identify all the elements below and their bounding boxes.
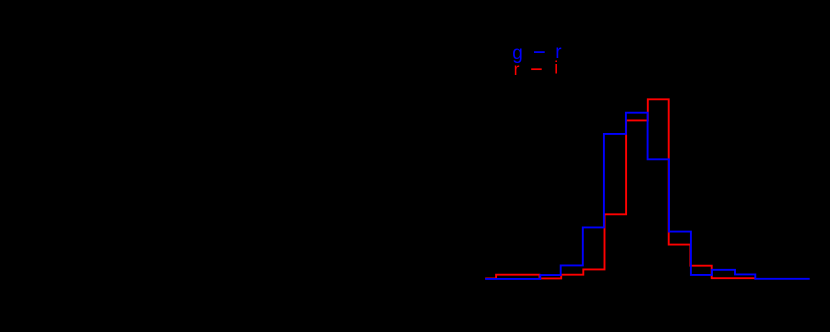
svg-text:r: r xyxy=(514,59,520,79)
legend r-i minus dash (red) xyxy=(531,68,542,70)
histogram g-r (blue step line) xyxy=(485,113,810,279)
legend label g - r (blue) xyxy=(512,42,562,64)
legend label r - i (red) xyxy=(514,58,558,79)
svg-text:i: i xyxy=(554,58,558,78)
legend g-r minus dash (blue) xyxy=(534,51,545,53)
histogram r-i (red step line) xyxy=(485,99,754,278)
